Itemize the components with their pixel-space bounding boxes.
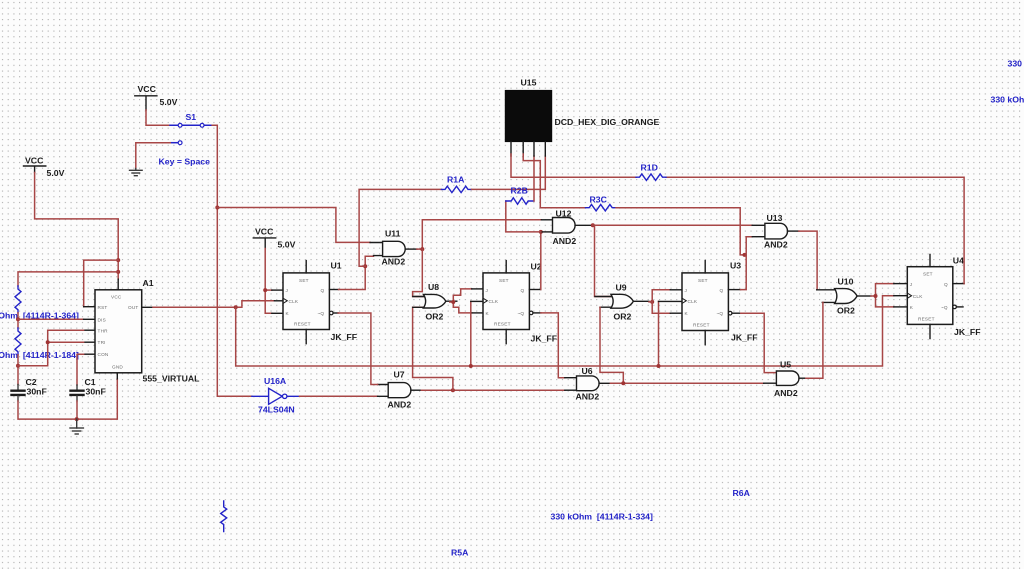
svg-text:SET: SET xyxy=(698,278,708,283)
svg-text:U15: U15 xyxy=(521,78,537,88)
wire 555 GND pin stub xyxy=(116,373,118,379)
svg-text:RESET: RESET xyxy=(693,323,710,328)
svg-text:Q: Q xyxy=(944,282,948,287)
svg-text:U7: U7 xyxy=(394,370,405,380)
wire VCC to RST xyxy=(84,260,119,307)
svg-text:AND2: AND2 xyxy=(764,240,788,250)
gate U10 OR2 xyxy=(835,277,871,316)
svg-text:U8: U8 xyxy=(428,282,439,292)
svg-text:5.0V: 5.0V xyxy=(47,168,65,178)
node R1A tap junction xyxy=(363,264,367,268)
svg-text:U10: U10 xyxy=(838,277,854,287)
svg-text:CON: CON xyxy=(98,352,109,357)
svg-text:AND2: AND2 xyxy=(774,388,798,398)
svg-text:U6: U6 xyxy=(582,366,593,376)
svg-text:U9: U9 xyxy=(616,283,627,293)
wire switch net to U11 upper input xyxy=(217,208,370,243)
resistor R5A (floating) xyxy=(221,501,469,558)
power VCC2 (switch supply) xyxy=(135,84,178,110)
capacitor C1 30nF xyxy=(71,377,106,401)
wire U3 Q stub to R3C net and U13 lower input xyxy=(728,289,740,291)
svg-text:J: J xyxy=(286,288,289,293)
svg-text:TRI: TRI xyxy=(98,340,106,345)
flip-flop U1 JK_FF xyxy=(283,261,357,344)
wire U1 CLK pin stub xyxy=(274,300,283,302)
wire U5 lower input stub xyxy=(764,382,777,384)
wire U5 out riser to U10 lower input xyxy=(806,302,823,378)
wire U8 output staircase to U2 J and K xyxy=(450,289,472,302)
wire U9 out to U3 J and K xyxy=(649,290,670,313)
svg-text:J: J xyxy=(486,288,489,293)
wire 555 OUT to clock xyxy=(142,306,153,308)
svg-text:330 kOhm [4114R-1-184]: 330 kOhm [4114R-1-184] xyxy=(0,350,79,360)
svg-text:CLK: CLK xyxy=(489,299,499,304)
svg-text:U5: U5 xyxy=(780,360,791,370)
wire U4 ~Q stub (unconnected) xyxy=(953,305,957,309)
svg-text:VCC: VCC xyxy=(111,294,122,299)
svg-text:R1A: R1A xyxy=(447,175,465,185)
node U8 out junction xyxy=(451,300,455,304)
node U10 out junction xyxy=(874,294,878,298)
wire switch lower throw to ground xyxy=(136,143,170,169)
gate U12 AND2 xyxy=(541,209,592,247)
svg-text:RESET: RESET xyxy=(494,322,511,327)
wire U3 CLK riser to bus xyxy=(658,301,660,366)
flip-flop U4 JK_FF xyxy=(907,255,980,339)
wire clock bus xyxy=(236,296,894,366)
wire DIS to resistor chain xyxy=(18,318,84,320)
wire U13 upper input stub xyxy=(752,224,765,226)
node U11 output junction xyxy=(420,247,424,251)
resistor R2B xyxy=(506,186,534,205)
wire U4 K pin stub xyxy=(894,306,908,308)
wire THR feed xyxy=(84,329,95,331)
svg-text:VCC: VCC xyxy=(25,156,44,166)
ground symbol bottom xyxy=(70,419,83,434)
wire switch output long riser xyxy=(212,125,252,396)
svg-text:74LS04N: 74LS04N xyxy=(258,405,295,415)
svg-text:RESET: RESET xyxy=(294,322,311,327)
svg-text:AND2: AND2 xyxy=(388,400,412,410)
svg-text:R6A: R6A xyxy=(733,488,751,498)
node U7 out / U8 feedback junction xyxy=(451,388,455,392)
svg-text:30nF: 30nF xyxy=(86,387,106,397)
node switch riser junction xyxy=(215,206,219,210)
node U12 output junction xyxy=(591,223,595,227)
wire 555 RST pin stub xyxy=(84,306,95,308)
wire VCC1 to 555 VCC pin xyxy=(35,173,119,280)
wire U10 lower input stub xyxy=(822,301,838,303)
wire display pin2 to R3C xyxy=(523,154,585,208)
wire U4 Q stub and riser to R1D xyxy=(953,283,964,285)
wire U2 CLK riser to bus xyxy=(470,301,472,366)
svg-text:SET: SET xyxy=(299,278,309,283)
flip-flop U2 JK_FF xyxy=(483,261,557,344)
svg-text:R2B: R2B xyxy=(511,186,528,196)
wire U13 lower input stub xyxy=(752,236,765,238)
wire U1 ~Q bubble and stub xyxy=(330,311,334,315)
svg-text:AND2: AND2 xyxy=(382,257,406,267)
power VCC3 (U1 JK tie) xyxy=(253,227,295,250)
wire U1 ~Q to U7 upper input xyxy=(338,313,377,385)
gate U9 OR2 xyxy=(595,283,649,322)
resistor R3C xyxy=(586,195,616,211)
svg-text:CLK: CLK xyxy=(913,294,923,299)
switch S1 Key=Space xyxy=(159,112,213,167)
svg-text:JK_FF: JK_FF xyxy=(731,333,758,343)
wire inverter out to U7 lower input xyxy=(300,395,378,397)
wire U2 ~Q bubble and stub xyxy=(529,311,533,315)
display U15 DCD_HEX_DIG_ORANGE xyxy=(505,78,659,157)
node U2 CLK bus junction xyxy=(469,364,473,368)
svg-text:5.0V: 5.0V xyxy=(160,97,178,107)
resistor 330kOhm R lower [4114R-1-184] xyxy=(15,328,21,355)
svg-text:OR2: OR2 xyxy=(837,306,855,316)
wire U6 lower input stub xyxy=(565,389,577,391)
node clock tap junction xyxy=(234,305,238,309)
resistor R1D xyxy=(636,163,666,181)
svg-text:DIS: DIS xyxy=(98,317,106,322)
wire U11 output riser xyxy=(417,220,542,249)
op-amp timer A1 555_VIRTUAL box xyxy=(95,278,200,384)
wire between resistors xyxy=(17,313,19,328)
wire TRI feed xyxy=(84,341,95,343)
svg-text:330: 330 xyxy=(1008,59,1023,69)
svg-text:DCD_HEX_DIG_ORANGE: DCD_HEX_DIG_ORANGE xyxy=(555,117,660,127)
svg-text:~Q: ~Q xyxy=(717,311,724,316)
svg-text:U1: U1 xyxy=(331,261,342,271)
capacitor C2 30nF xyxy=(12,377,47,401)
wire VCC2 to switch xyxy=(146,110,170,125)
svg-text:VCC: VCC xyxy=(138,84,157,94)
svg-text:JK_FF: JK_FF xyxy=(954,327,981,337)
wire U6 upper input stub xyxy=(565,377,577,379)
node THR/TRI junction xyxy=(46,340,50,344)
inverter U16A 74LS04N xyxy=(252,376,300,415)
wire bottom ground rail xyxy=(18,379,117,419)
wire U3 ~Q to U5 upper input xyxy=(741,313,777,372)
svg-text:A1: A1 xyxy=(143,278,154,288)
svg-text:S1: S1 xyxy=(186,112,197,122)
wire display pin1 to R1D xyxy=(511,154,636,177)
node THR/TRI tie to chain xyxy=(16,364,20,368)
wire R2B to display pin3 xyxy=(533,156,535,201)
wire U12 out to U9 upper input xyxy=(595,225,612,296)
wire U12 lower input stub xyxy=(541,231,553,233)
wire R2B to U12 lower input xyxy=(506,201,541,232)
power VCC1 xyxy=(24,156,65,179)
wire VCC3 to U1 J and K xyxy=(265,249,272,314)
svg-text:SET: SET xyxy=(923,272,933,277)
svg-text:R5A: R5A xyxy=(451,548,469,558)
wire U2 J pin stub xyxy=(472,288,483,290)
svg-text:U3: U3 xyxy=(730,261,741,271)
svg-text:Q: Q xyxy=(720,288,724,293)
svg-text:CLK: CLK xyxy=(688,299,698,304)
node U12 lower input junction xyxy=(539,230,543,234)
svg-text:U16A: U16A xyxy=(264,376,287,386)
svg-text:R1D: R1D xyxy=(641,163,658,173)
svg-text:555_VIRTUAL: 555_VIRTUAL xyxy=(143,374,201,384)
wire CON feed xyxy=(84,353,95,355)
svg-text:Q: Q xyxy=(521,288,525,293)
wire R1A to display pin4 xyxy=(472,156,546,189)
wire U7 output to U6 lower input xyxy=(421,389,564,391)
svg-text:JK_FF: JK_FF xyxy=(531,334,558,344)
svg-text:U13: U13 xyxy=(767,213,783,223)
wire U3 K pin stub xyxy=(670,312,682,314)
gate U8 OR2 xyxy=(413,282,457,322)
node U9 output junction xyxy=(650,300,654,304)
svg-text:Key = Space: Key = Space xyxy=(159,157,211,167)
svg-text:J: J xyxy=(685,288,688,293)
svg-text:U4: U4 xyxy=(953,256,964,266)
wire U1 J pin stub xyxy=(272,289,283,291)
svg-text:~Q: ~Q xyxy=(318,311,325,316)
wire R3C to U3 Q net xyxy=(616,208,746,255)
svg-text:U12: U12 xyxy=(556,209,572,219)
svg-text:GND: GND xyxy=(112,365,123,370)
svg-text:OR2: OR2 xyxy=(614,312,632,322)
flip-flop U3 JK_FF xyxy=(682,261,758,345)
svg-text:~Q: ~Q xyxy=(518,311,525,316)
wire resistor bottom to C2 xyxy=(17,355,19,385)
wire U2 Q stub and riser to U12 lower input xyxy=(529,289,540,291)
svg-text:SET: SET xyxy=(499,278,509,283)
wire U12 out to U13 upper input xyxy=(593,224,752,226)
svg-text:330 kOhm [4114R-1-334]: 330 kOhm [4114R-1-334] xyxy=(551,512,653,522)
gate U7 AND2 xyxy=(378,370,422,410)
wire Q1 net to R1A xyxy=(359,189,441,266)
svg-text:330 kOhm: 330 kOhm xyxy=(991,95,1024,105)
gate U5 AND2 xyxy=(774,360,806,399)
wire U3 ~Q bubble and stub xyxy=(728,311,732,315)
svg-text:AND2: AND2 xyxy=(553,236,577,246)
svg-text:THR: THR xyxy=(98,328,109,333)
svg-text:~Q: ~Q xyxy=(941,305,948,310)
wire U1 Q stub xyxy=(329,289,338,291)
wire U9 lower input to U6 output net xyxy=(600,307,623,383)
wire U1 Q to U11 lower input xyxy=(339,256,374,289)
wire U10 upper input stub xyxy=(817,289,838,291)
wire 555 DIS pin stub xyxy=(84,318,95,320)
svg-text:J: J xyxy=(910,282,913,287)
svg-text:JK_FF: JK_FF xyxy=(331,332,358,342)
wire U1 K pin stub xyxy=(272,312,283,314)
wire U13 out to U10 upper input xyxy=(799,231,817,290)
node U1 J junction xyxy=(263,288,267,292)
svg-text:AND2: AND2 xyxy=(576,392,600,402)
svg-text:C1: C1 xyxy=(85,377,96,387)
wire U3 J pin stub xyxy=(670,289,682,291)
wire VCC to resistor chain xyxy=(18,272,118,286)
gate U6 AND2 xyxy=(576,366,611,402)
wire U11 out to U8 upper input xyxy=(413,249,425,296)
svg-text:OUT: OUT xyxy=(128,305,139,310)
resistor R1A xyxy=(442,175,472,193)
node U6 out junction xyxy=(621,381,625,385)
gate U13 AND2 xyxy=(764,213,799,250)
node U3 CLK bus junction xyxy=(657,364,661,368)
wire U8 lower input feedback xyxy=(413,307,453,390)
ground symbol at switch xyxy=(130,169,143,176)
svg-text:CLK: CLK xyxy=(289,299,299,304)
node VCC net junction at RST feed xyxy=(116,258,120,262)
svg-text:R3C: R3C xyxy=(590,195,608,205)
resistor 330kOhm R upper [4114R-1-364] xyxy=(15,286,21,313)
svg-text:VCC: VCC xyxy=(255,227,274,237)
svg-text:Q: Q xyxy=(321,288,325,293)
svg-text:OR2: OR2 xyxy=(426,312,444,322)
wire U4 CLK pin stub xyxy=(894,295,908,297)
wire U2 K pin stub xyxy=(472,312,483,314)
gate U11 AND2 xyxy=(370,229,417,267)
svg-text:30nF: 30nF xyxy=(27,387,47,397)
svg-text:U11: U11 xyxy=(385,229,401,239)
wire U4 J pin stub xyxy=(894,283,908,285)
svg-text:C2: C2 xyxy=(26,377,37,387)
svg-text:5.0V: 5.0V xyxy=(278,240,296,250)
node DIS junction xyxy=(16,317,20,321)
wire U2 ~Q to U6 upper input xyxy=(541,313,565,378)
svg-text:RESET: RESET xyxy=(918,316,935,321)
wire U6 out to U5 lower input xyxy=(610,382,763,384)
svg-text:RST: RST xyxy=(98,305,108,310)
wire U10 out to U4 J and K xyxy=(871,284,894,307)
node R3C / Q3 junction xyxy=(743,253,747,257)
node ground rail junction xyxy=(75,417,79,421)
node VCC net junction at resistor feed xyxy=(116,270,120,274)
